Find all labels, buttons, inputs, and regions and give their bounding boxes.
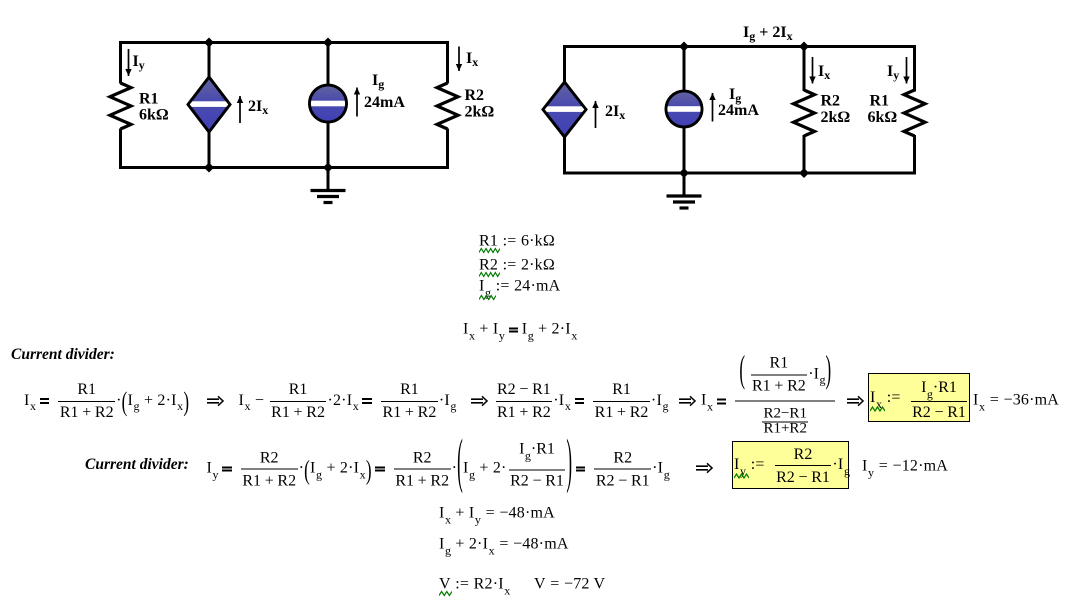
ground symbol (left circuit) <box>327 168 330 191</box>
result box: Iy := R2/(R2-R1) Ig <box>732 441 849 489</box>
implies arrow 1 <box>206 395 224 406</box>
result box: Ix := Ig R1/(R2-R1) <box>868 373 970 422</box>
dependent current source 2Ix (diamond, right circuit) <box>543 82 586 137</box>
wire: Ig source upper lead (right circuit) <box>683 47 686 93</box>
caption: Current divider (row 2) <box>85 456 189 474</box>
current arrow of Ig (up) <box>356 88 358 117</box>
wire: right edge upper segment <box>446 41 449 84</box>
equation C4: Ix = big fraction <box>701 360 836 441</box>
svg-text:2kΩ: 2kΩ <box>821 109 851 126</box>
current arrow of Ig (up, right circuit) <box>712 93 714 122</box>
evaluation Ig + 2 Ix = -48 mA <box>439 535 569 552</box>
svg-text:24mA: 24mA <box>718 102 759 119</box>
wire: right circuit top rail <box>563 45 916 48</box>
svg-text:24mA: 24mA <box>364 94 405 111</box>
wire: Ig source lower lead (right circuit) <box>683 127 686 174</box>
wire: Ig source upper lead <box>327 43 330 87</box>
svg-text:Ig: Ig <box>372 72 384 91</box>
implies arrow 2 <box>470 395 488 406</box>
wire: right edge lower segment <box>446 129 449 170</box>
node: right circuit bottom junction at R2 <box>799 168 809 178</box>
svg-text:6kΩ: 6kΩ <box>868 109 898 126</box>
definition R2 := 2 kOhm <box>479 256 555 273</box>
definition V := R2 Ix <box>439 576 510 593</box>
svg-text:R1: R1 <box>139 91 159 108</box>
equation C1: Ix = R1/(R1+R2)(Ig+2Ix) <box>24 380 189 420</box>
svg-text:Iy: Iy <box>887 63 899 82</box>
svg-text:2Ix: 2Ix <box>248 98 268 117</box>
independent current source Ig 24mA (circle, right circuit) <box>666 91 702 127</box>
wire: right circuit right edge lower <box>913 135 916 175</box>
node: right circuit bottom junction at Ig <box>679 168 689 178</box>
resistor R2 2k ohm (right circuit) <box>794 90 815 136</box>
evaluation Iy = -12 mA <box>862 458 948 475</box>
node: right circuit top junction at R2 <box>799 42 809 52</box>
svg-text:Ig + 2Ix: Ig + 2Ix <box>743 24 793 43</box>
node: left circuit bottom-left junction <box>204 163 214 173</box>
implies arrow 3 <box>678 395 696 406</box>
dependent current source 2Ix (diamond) <box>188 77 230 132</box>
evaluation V = -72 V <box>534 576 605 593</box>
node: left circuit bottom-right junction <box>323 163 333 173</box>
wire: Ig source lower lead <box>327 121 330 168</box>
wire: R2 branch lower lead (right circuit) <box>803 135 806 173</box>
wire: right circuit left edge upper <box>563 45 566 84</box>
equation D1 <box>207 444 670 493</box>
independent current source Ig 24mA (circle) <box>310 85 347 122</box>
ground symbol (right circuit) <box>683 173 686 196</box>
evaluation Ix = -36 mA <box>973 392 1059 409</box>
resistor R1 6k ohm (right circuit) <box>904 90 925 136</box>
svg-text:Ix: Ix <box>818 63 830 82</box>
wire: left edge lower segment <box>119 129 122 170</box>
current arrow Ix (down, right circuit) <box>812 57 814 84</box>
resistor R2 2k ohm (left circuit right branch) <box>437 83 458 129</box>
wire: left circuit top rail <box>119 41 449 44</box>
svg-text:Iy: Iy <box>133 53 145 72</box>
KCL equation Ix + Iy = Ig + 2 Ix <box>463 320 578 337</box>
wire: left circuit bottom rail <box>119 166 449 169</box>
equation C3 <box>490 380 669 420</box>
current arrow Ix (down) <box>458 47 460 72</box>
implies arrow 5 <box>695 462 713 473</box>
wire: left edge upper segment <box>119 41 122 84</box>
current arrow of 2Ix (up) <box>239 96 241 123</box>
node: right circuit top junction at Ig <box>679 42 689 52</box>
current arrow Iy (down) <box>128 49 130 76</box>
node: left circuit top-right junction <box>323 38 333 48</box>
implies arrow 4 <box>846 395 864 406</box>
svg-text:2Ix: 2Ix <box>605 103 625 122</box>
current arrow Iy (down, right circuit) <box>906 57 908 84</box>
svg-text:6kΩ: 6kΩ <box>139 107 169 124</box>
wire: dependent source lower lead <box>208 130 211 168</box>
wire: right circuit right edge upper <box>913 45 916 92</box>
definition R1 := 6 kOhm <box>479 232 555 249</box>
wire: right circuit bottom rail <box>563 172 916 175</box>
resistor R1 6k ohm (left circuit left branch) <box>110 83 131 129</box>
wire: dependent source upper lead <box>208 43 211 80</box>
evaluation Ix + Iy = -48 mA <box>439 504 555 521</box>
svg-text:R2: R2 <box>821 93 841 110</box>
definition Ig := 24 mA <box>479 278 560 295</box>
equation C2 <box>239 380 457 420</box>
wire: R2 branch upper lead (right circuit) <box>803 47 806 92</box>
svg-text:2kΩ: 2kΩ <box>465 104 495 121</box>
wire: right circuit left edge lower <box>563 135 566 175</box>
current arrow of 2Ix (up, right circuit) <box>595 101 597 128</box>
svg-text:R2: R2 <box>465 87 485 104</box>
svg-text:Ix: Ix <box>466 50 478 69</box>
caption: Current divider (row 1) <box>11 346 115 364</box>
svg-text:R1: R1 <box>870 93 890 110</box>
node: left circuit top-left junction <box>204 38 214 48</box>
